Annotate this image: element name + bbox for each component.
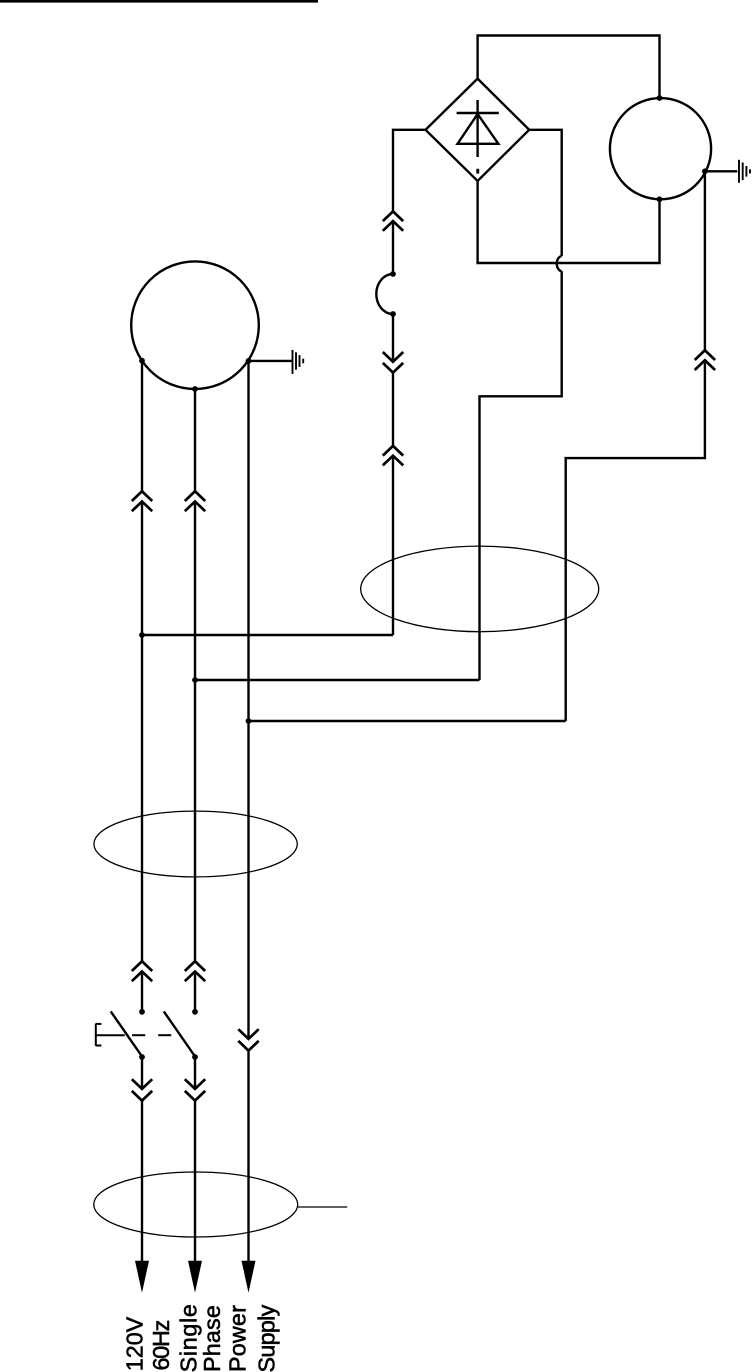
svg-text:Single: Single bbox=[176, 1303, 202, 1372]
svg-text:Supply: Supply bbox=[253, 1304, 279, 1372]
svg-text:120V: 120V bbox=[121, 1316, 147, 1371]
svg-text:Power: Power bbox=[225, 1305, 251, 1372]
svg-text:Phase: Phase bbox=[199, 1305, 225, 1372]
svg-text:60Hz: 60Hz bbox=[148, 1320, 174, 1370]
